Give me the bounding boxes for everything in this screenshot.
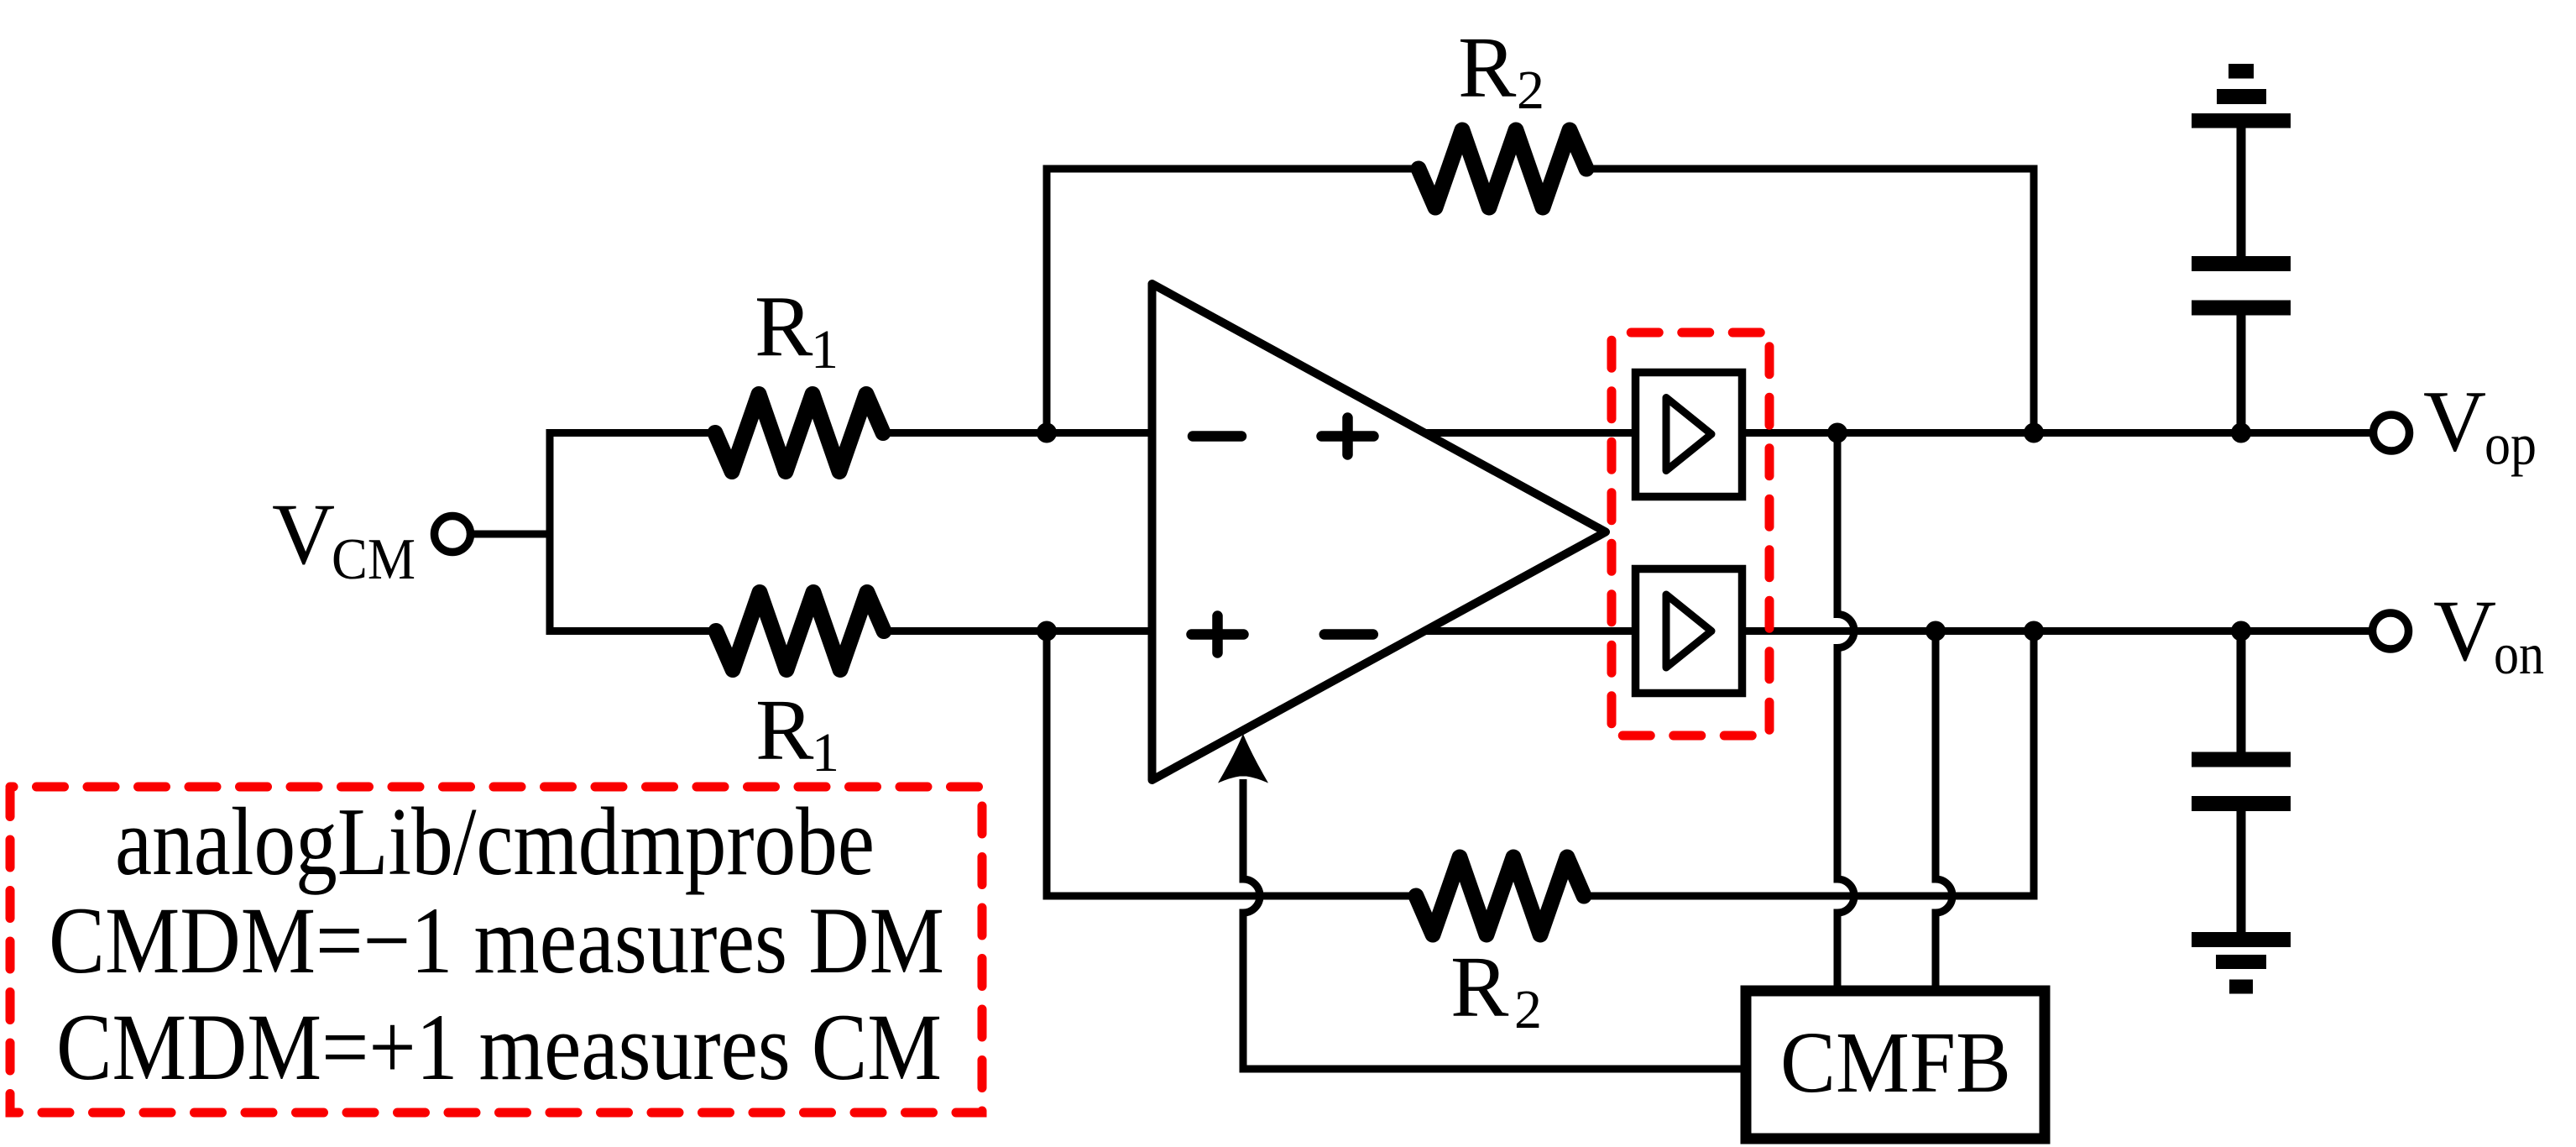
svg-text:V: V: [2433, 583, 2496, 679]
svg-text:R: R: [1450, 939, 1509, 1035]
svg-text:V: V: [2423, 374, 2486, 470]
svg-text:CM: CM: [332, 527, 415, 592]
svg-text:R: R: [755, 279, 813, 375]
svg-text:on: on: [2494, 622, 2544, 687]
svg-text:R: R: [1458, 19, 1517, 116]
svg-text:2: 2: [1514, 979, 1542, 1040]
svg-text:2: 2: [1517, 60, 1544, 121]
svg-text:1: 1: [811, 319, 839, 380]
svg-text:CMDM=−1 measures DM: CMDM=−1 measures DM: [49, 888, 944, 993]
svg-text:V: V: [272, 486, 335, 583]
svg-text:1: 1: [812, 722, 839, 783]
svg-text:op: op: [2485, 413, 2537, 478]
svg-text:CMDM=+1 measures CM: CMDM=+1 measures CM: [56, 995, 942, 1100]
svg-text:R: R: [755, 682, 814, 778]
svg-text:analogLib/cmdmprobe: analogLib/cmdmprobe: [115, 788, 875, 896]
svg-text:CMFB: CMFB: [1780, 1014, 2011, 1111]
